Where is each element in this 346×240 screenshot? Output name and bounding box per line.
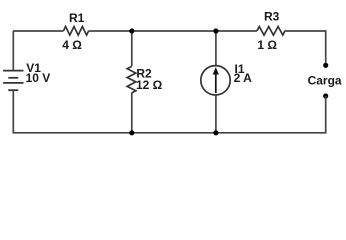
battery V1 plate 1 long [3, 70, 23, 72]
resistor R1 [64, 27, 89, 36]
junction node D (bottom I1) [213, 130, 218, 135]
wire R2 to bottom node [131, 93, 133, 133]
battery V1 plate 3 long [3, 82, 23, 84]
junction node A (top R2) [129, 28, 134, 33]
wire R3 to top-right corner down to load terminal [285, 31, 326, 65]
wire top-left horizontal [13, 30, 64, 32]
svg-text:Carga: Carga [308, 74, 342, 88]
wire R1 to node A [89, 30, 132, 32]
svg-text:2 A: 2 A [234, 71, 253, 85]
wire left vertical bottom (battery to bottom wire) [13, 90, 132, 133]
wire load bottom terminal to bottom-right corner [216, 96, 326, 133]
current source I1 arrow head [213, 67, 219, 75]
svg-text:4 Ω: 4 Ω [62, 38, 82, 52]
svg-text:1 Ω: 1 Ω [257, 38, 277, 52]
node load bottom terminal [323, 93, 328, 98]
svg-text:10 V: 10 V [26, 71, 51, 85]
current source I1 arrow shaft [215, 73, 217, 94]
junction node C (bottom R2) [129, 130, 134, 135]
svg-text:R3: R3 [264, 10, 280, 24]
wire node B to R3 [216, 30, 257, 32]
current source I1 circle [201, 66, 230, 95]
svg-text:12 Ω: 12 Ω [136, 78, 163, 92]
wire node A down to R2 [131, 31, 133, 67]
resistor R3 [257, 27, 285, 36]
wire current source to bottom node [215, 95, 217, 133]
junction node B (top I1) [213, 28, 218, 33]
svg-text:R1: R1 [69, 11, 85, 25]
wire node A to node B [132, 30, 216, 32]
wire node B down to current source I1 [215, 31, 217, 66]
wire bottom middle segment [132, 132, 216, 134]
battery V1 plate 4 short [8, 89, 18, 91]
battery V1 plate 2 short [8, 77, 18, 79]
wire left vertical top (to battery) [12, 31, 14, 71]
node load top terminal [323, 63, 328, 68]
resistor R2 [127, 67, 136, 94]
